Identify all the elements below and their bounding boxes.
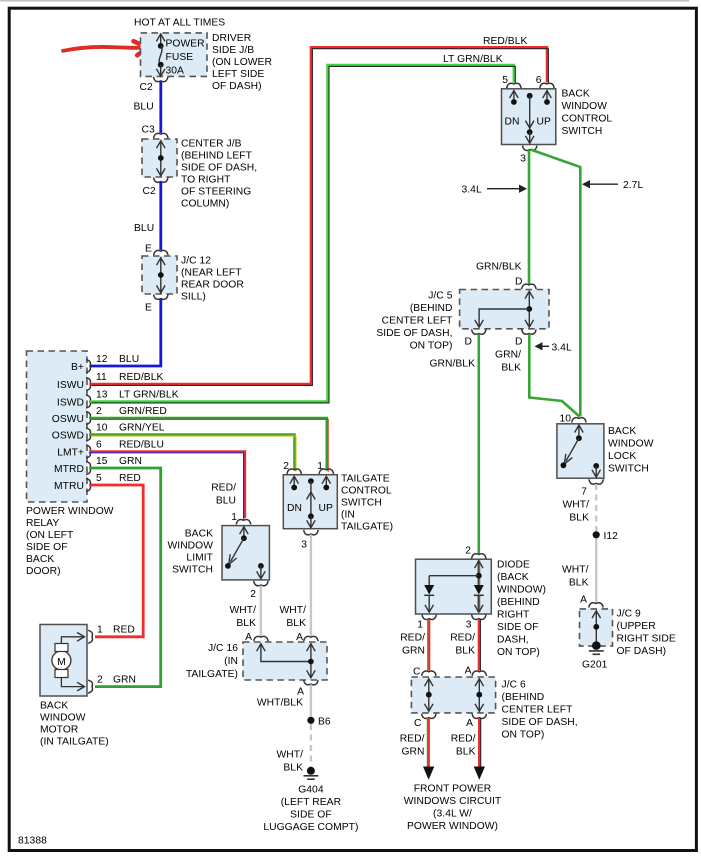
svg-text:SWITCH: SWITCH <box>341 498 382 509</box>
wire WHT/BLK I12 to J/C 9 <box>595 539 597 603</box>
svg-text:C2: C2 <box>140 82 153 93</box>
J/C 5 pin D top <box>515 277 536 290</box>
svg-text:3: 3 <box>301 540 307 551</box>
svg-text:CENTER LEFT: CENTER LEFT <box>502 705 574 716</box>
svg-text:RED: RED <box>119 473 141 484</box>
svg-text:6: 6 <box>96 440 102 451</box>
svg-text:BACK: BACK <box>562 89 590 100</box>
svg-text:CONTROL: CONTROL <box>341 486 392 497</box>
svg-text:J/C 12: J/C 12 <box>181 256 211 267</box>
svg-text:WHT/BLK: WHT/BLK <box>257 698 303 709</box>
svg-text:3: 3 <box>466 620 472 631</box>
svg-text:OSWU: OSWU <box>52 414 84 425</box>
label RED/ GRN lower <box>400 734 425 758</box>
J/C 9 box <box>580 609 676 658</box>
J/C 6 internal wires <box>425 679 484 712</box>
svg-text:RELAY: RELAY <box>26 518 59 529</box>
lock switch pin 10 <box>559 414 586 425</box>
relay pin B+ 12 <box>71 354 139 373</box>
svg-text:2: 2 <box>283 461 289 472</box>
svg-text:LEFT SIDE: LEFT SIDE <box>212 69 264 80</box>
svg-text:RED/BLK: RED/BLK <box>483 36 527 47</box>
svg-text:RED/: RED/ <box>451 734 476 745</box>
svg-text:CENTER LEFT: CENTER LEFT <box>382 316 454 327</box>
svg-text:WINDOW: WINDOW <box>608 439 654 450</box>
wire GRN/BLK right D to lock switch pin 10 <box>529 334 579 417</box>
J/C 12 internal wire <box>157 258 166 293</box>
label WHT/BLK right <box>279 605 306 629</box>
center J/B box <box>142 139 257 210</box>
svg-text:BACK: BACK <box>185 529 213 540</box>
svg-text:BACK: BACK <box>608 426 636 437</box>
wire WHT/BLK tailgate pin3 to J/C 16 <box>310 535 312 637</box>
svg-text:TAILGATE: TAILGATE <box>341 474 390 485</box>
svg-text:(LEFT REAR: (LEFT REAR <box>281 797 341 808</box>
driver side J/B box <box>141 33 272 92</box>
back window lock switch box <box>557 424 654 478</box>
relay pin ISWU 11 <box>57 372 164 391</box>
svg-text:CENTER J/B: CENTER J/B <box>181 139 242 150</box>
connector E above J/C 12 <box>154 250 168 255</box>
J/C 16 pin A right <box>296 632 318 643</box>
svg-text:OSWD: OSWD <box>52 431 84 442</box>
svg-text:13: 13 <box>96 390 108 401</box>
splice I12 <box>593 531 619 542</box>
svg-text:RED/BLK: RED/BLK <box>119 372 163 383</box>
control switch pin 6 <box>536 75 554 88</box>
svg-text:5: 5 <box>96 473 102 484</box>
svg-text:LT GRN/BLK: LT GRN/BLK <box>119 390 179 401</box>
svg-text:DOOR): DOOR) <box>26 566 61 577</box>
tailgate switch pin 1 <box>317 461 333 474</box>
J/C 6 pin C bottom <box>414 714 436 729</box>
ground G404 <box>263 767 358 833</box>
wire RED/GRN J/C 6 to front circuit <box>427 718 428 768</box>
svg-text:BACK: BACK <box>40 701 68 712</box>
svg-text:GRN: GRN <box>402 646 425 657</box>
svg-text:B6: B6 <box>318 717 331 728</box>
svg-text:D: D <box>515 277 523 288</box>
label RED/ GRN <box>400 633 425 657</box>
wire WHT/BLK limit pin2 to J/C 16 <box>260 586 262 637</box>
svg-text:DN: DN <box>287 503 302 514</box>
svg-text:WINDOW: WINDOW <box>40 713 86 724</box>
svg-text:A: A <box>296 632 303 643</box>
label FRONT POWER WINDOWS CIRCUIT <box>404 784 502 833</box>
back window limit switch box <box>168 526 270 580</box>
svg-text:LMT+: LMT+ <box>57 448 84 459</box>
tailgate switch pin 2 <box>283 461 301 474</box>
svg-text:UP: UP <box>319 503 333 514</box>
label 3.4L with arrow <box>462 185 528 196</box>
wire RED/BLK pin11 to control switch pin 6 <box>90 47 548 385</box>
label 3.4L with arrow at J/C 5 <box>535 342 572 353</box>
wire BLU fuse to C3 <box>159 82 162 134</box>
svg-text:SWITCH: SWITCH <box>562 126 603 137</box>
wire RED/BLK J/C 6 to front circuit <box>479 718 480 768</box>
label GRN/ BLK below right D <box>495 350 521 374</box>
svg-text:RED/: RED/ <box>400 734 425 745</box>
diode pin 3 <box>466 615 486 631</box>
svg-text:6: 6 <box>536 75 542 86</box>
svg-text:(IN: (IN <box>341 510 355 521</box>
wire GRN/BLK pin3 to J/C 5 <box>528 150 531 285</box>
svg-text:RED: RED <box>113 625 135 636</box>
svg-text:WINDOW: WINDOW <box>168 541 214 552</box>
limit switch pin 1 <box>231 512 250 524</box>
svg-text:WHT/: WHT/ <box>276 750 303 761</box>
label 2.7L with arrow <box>582 180 643 191</box>
svg-text:J/C 6: J/C 6 <box>502 680 527 691</box>
svg-text:COLUMN): COLUMN) <box>181 199 229 210</box>
svg-text:OF DASH): OF DASH) <box>212 81 262 92</box>
diode pin 1 <box>417 615 436 631</box>
motor M symbol <box>52 633 85 691</box>
svg-text:WINDOW): WINDOW) <box>497 585 546 596</box>
svg-text:LUGGAGE COMPT): LUGGAGE COMPT) <box>263 822 358 833</box>
J/C 16 pin A bottom <box>297 680 318 698</box>
svg-text:(3.4L W/: (3.4L W/ <box>433 809 472 820</box>
diode internal wires <box>424 561 484 613</box>
svg-text:BLK: BLK <box>501 363 521 374</box>
svg-text:SIDE OF: SIDE OF <box>497 622 539 633</box>
back window motor box <box>40 625 109 748</box>
svg-text:BLU: BLU <box>119 354 139 365</box>
svg-text:3.4L: 3.4L <box>552 343 572 354</box>
connector C3 <box>154 133 168 138</box>
svg-text:RIGHT SIDE: RIGHT SIDE <box>617 634 676 645</box>
svg-text:G404: G404 <box>298 785 324 796</box>
svg-text:GRN/BLK: GRN/BLK <box>476 262 522 273</box>
svg-text:WHT/: WHT/ <box>562 500 589 511</box>
relay pin OSWD 10 <box>52 423 165 442</box>
wire RED/BLK diode pin3 to J/C 6 <box>479 619 480 671</box>
wire RED/GRN diode pin1 to J/C 6 <box>428 619 429 671</box>
svg-text:2: 2 <box>96 406 102 417</box>
svg-text:1: 1 <box>97 625 103 636</box>
annotation red arrow <box>63 41 148 55</box>
svg-text:WHT/: WHT/ <box>562 565 589 576</box>
svg-text:10: 10 <box>559 414 571 425</box>
tailgate control switch box <box>283 474 393 533</box>
svg-text:BLU: BLU <box>134 223 154 234</box>
svg-text:HOT AT ALL TIMES: HOT AT ALL TIMES <box>134 18 225 29</box>
relay pin OSWU 2 <box>52 406 167 425</box>
svg-text:(IN: (IN <box>224 656 238 667</box>
svg-text:BLK: BLK <box>236 618 256 629</box>
svg-text:C: C <box>413 667 421 678</box>
relay pin ISWD 13 <box>57 390 179 409</box>
wire GRN/BLK left D to diode pin 2 <box>477 334 480 555</box>
svg-text:ON TOP): ON TOP) <box>502 730 545 741</box>
lock switch pin 7 <box>581 479 603 497</box>
J/C 6 pin A bottom <box>466 714 486 729</box>
svg-text:12: 12 <box>96 354 108 365</box>
svg-text:POWER WINDOW: POWER WINDOW <box>26 506 114 517</box>
wire WHT/BLK to B6 <box>310 685 312 717</box>
svg-text:GRN: GRN <box>401 747 424 758</box>
svg-text:SIDE OF: SIDE OF <box>26 542 68 553</box>
svg-text:(ON LEFT: (ON LEFT <box>26 530 74 541</box>
tailgate switch contacts <box>287 476 333 528</box>
J/C 5 pin D bottom left <box>465 329 486 347</box>
svg-text:SIDE OF DASH,: SIDE OF DASH, <box>502 717 578 728</box>
svg-text:G201: G201 <box>582 660 608 671</box>
svg-text:1: 1 <box>417 620 423 631</box>
svg-text:SIDE OF DASH,: SIDE OF DASH, <box>376 328 452 339</box>
svg-text:BLK: BLK <box>286 618 306 629</box>
svg-text:J/C 5: J/C 5 <box>428 291 453 302</box>
svg-text:I12: I12 <box>604 531 619 542</box>
svg-text:UP: UP <box>537 117 551 128</box>
arrow to front circuit right <box>474 767 485 780</box>
svg-text:E: E <box>145 303 152 314</box>
wire BLU J/C 12 to relay pin 12 <box>90 299 161 366</box>
wire LT GRN/BLK pin13 to control switch pin 5 <box>90 65 515 403</box>
svg-text:OF STEERING: OF STEERING <box>181 187 251 198</box>
label RED/ BLK lower <box>451 734 476 758</box>
arrow to front circuit left <box>423 767 434 780</box>
control switch pin 5 <box>502 75 521 88</box>
svg-text:MOTOR: MOTOR <box>40 725 78 736</box>
svg-text:7: 7 <box>581 487 587 498</box>
svg-text:A: A <box>245 632 252 643</box>
svg-text:CONTROL: CONTROL <box>562 114 613 125</box>
svg-text:TAILGATE): TAILGATE) <box>341 522 393 533</box>
svg-text:WINDOW: WINDOW <box>562 101 608 112</box>
connector C2 below center J/B <box>154 178 168 183</box>
wire GRN pin3 to lock switch 2.7L branch <box>531 150 581 417</box>
diode box <box>416 559 546 658</box>
svg-text:2: 2 <box>97 675 103 686</box>
wire GRN/RED pin2 to tailgate switch pin 1 <box>90 418 328 472</box>
svg-text:RIGHT: RIGHT <box>497 610 530 621</box>
svg-text:BLK: BLK <box>456 747 476 758</box>
svg-text:(BEHIND: (BEHIND <box>497 597 540 608</box>
svg-text:(IN TAILGATE): (IN TAILGATE) <box>40 737 109 748</box>
svg-text:11: 11 <box>96 372 107 383</box>
svg-text:BLU: BLU <box>216 496 236 507</box>
motor pin 1 <box>88 625 135 644</box>
svg-text:BACK: BACK <box>26 554 54 565</box>
J/C 9 internal wire and ground G201 <box>582 611 608 671</box>
svg-text:RED/: RED/ <box>400 633 425 644</box>
page top edge line <box>0 0 689 2</box>
svg-text:C2: C2 <box>143 186 156 197</box>
svg-text:RED/BLU: RED/BLU <box>119 440 164 451</box>
svg-text:D: D <box>515 337 523 348</box>
svg-text:SIDE J/B: SIDE J/B <box>212 45 254 56</box>
svg-text:GRN/BLK: GRN/BLK <box>429 359 475 370</box>
power window relay box <box>26 351 114 577</box>
svg-text:A: A <box>580 595 587 606</box>
J/C 5 internal wires <box>475 291 534 327</box>
lock switch contacts <box>561 425 601 477</box>
svg-text:SWITCH: SWITCH <box>172 565 213 576</box>
svg-text:FUSE: FUSE <box>166 52 194 63</box>
splice B6 <box>307 717 331 728</box>
svg-text:(UPPER: (UPPER <box>617 621 656 632</box>
svg-text:(BEHIND: (BEHIND <box>502 692 545 703</box>
svg-text:GRN: GRN <box>113 675 136 686</box>
control switch pin 3 <box>520 146 537 165</box>
svg-text:SIDE OF DASH,: SIDE OF DASH, <box>181 163 257 174</box>
svg-text:C: C <box>414 718 422 729</box>
J/C 5 pin D bottom right <box>515 329 536 347</box>
svg-text:DIODE: DIODE <box>497 560 530 571</box>
svg-text:(NEAR LEFT: (NEAR LEFT <box>181 268 242 279</box>
svg-text:TAILGATE): TAILGATE) <box>186 669 238 680</box>
J/C 16 box <box>186 642 327 680</box>
svg-text:MTRD: MTRD <box>54 464 84 475</box>
wire BLU C2 to E <box>159 182 162 250</box>
svg-text:(BACK: (BACK <box>497 572 529 583</box>
svg-text:(BEHIND: (BEHIND <box>410 303 453 314</box>
svg-text:E: E <box>145 244 152 255</box>
wire RED/BLU pin6 to limit switch pin 1 <box>89 452 245 520</box>
back window control switch box <box>502 89 613 145</box>
control switch contacts <box>505 90 552 143</box>
svg-text:30A: 30A <box>166 66 185 77</box>
svg-text:OF DASH): OF DASH) <box>617 646 667 657</box>
label RED/ BLK <box>450 633 475 657</box>
svg-text:ISWD: ISWD <box>57 398 84 409</box>
relay pin LMT+ 6 <box>57 440 164 459</box>
svg-text:3.4L: 3.4L <box>462 185 482 196</box>
svg-text:(ON LOWER: (ON LOWER <box>212 57 272 68</box>
svg-text:1: 1 <box>231 512 237 523</box>
wire WHT/BLK dashed B6 to G404 <box>310 724 312 767</box>
svg-text:LIMIT: LIMIT <box>186 553 213 564</box>
label WHT/ BLK <box>276 750 303 774</box>
wire WHT/BLK dashed pin7 to I12 <box>595 484 597 531</box>
svg-text:POWER: POWER <box>166 39 205 50</box>
svg-text:B+: B+ <box>71 362 84 373</box>
diode pin 2 <box>465 546 486 559</box>
limit switch pin 2 <box>250 581 268 600</box>
J/C 6 box <box>411 677 577 741</box>
svg-text:ISWU: ISWU <box>57 380 84 391</box>
J/C 5 box <box>376 290 549 352</box>
svg-text:DN: DN <box>505 117 520 128</box>
svg-text:FRONT POWER: FRONT POWER <box>414 784 492 795</box>
svg-text:LT GRN/BLK: LT GRN/BLK <box>443 54 503 65</box>
label WHT/BLK left <box>229 605 256 629</box>
svg-text:BLK: BLK <box>569 513 589 524</box>
svg-text:A: A <box>465 666 472 677</box>
svg-text:2: 2 <box>250 589 256 600</box>
svg-text:BLK: BLK <box>283 763 303 774</box>
tailgate switch pin 3 <box>301 530 318 551</box>
J/C 16 internal wires <box>257 644 316 678</box>
J/C 12 box <box>142 256 244 303</box>
svg-text:TO RIGHT: TO RIGHT <box>181 175 231 186</box>
svg-text:2.7L: 2.7L <box>623 180 643 191</box>
svg-text:A: A <box>466 718 473 729</box>
wire GRN pin15 to motor pin 2 <box>90 468 161 687</box>
svg-text:M: M <box>57 657 66 668</box>
svg-text:SILL): SILL) <box>181 292 206 303</box>
connector C2 below fuse <box>154 77 168 82</box>
svg-text:81388: 81388 <box>18 836 47 847</box>
svg-text:2: 2 <box>465 546 471 557</box>
svg-text:WINDOWS CIRCUIT: WINDOWS CIRCUIT <box>404 796 502 807</box>
svg-text:BLK: BLK <box>455 646 475 657</box>
svg-text:GRN/: GRN/ <box>495 350 521 361</box>
svg-text:C3: C3 <box>142 125 155 136</box>
fuse POWER FUSE 30A <box>156 34 204 77</box>
J/C 6 pin C top <box>413 667 436 678</box>
svg-text:POWER WINDOW): POWER WINDOW) <box>407 821 498 832</box>
svg-text:RED/: RED/ <box>450 633 475 644</box>
wire GRN/YEL pin10 to tailgate switch pin 2 <box>90 435 296 472</box>
svg-text:REAR DOOR: REAR DOOR <box>181 280 244 291</box>
svg-text:ON TOP): ON TOP) <box>497 647 540 658</box>
J/C 6 pin A top <box>465 666 487 677</box>
svg-text:3: 3 <box>520 154 526 165</box>
center J/B internal wire <box>157 141 166 176</box>
svg-text:MTRU: MTRU <box>54 481 84 492</box>
svg-text:15: 15 <box>96 456 108 467</box>
svg-text:BLK: BLK <box>569 578 589 589</box>
label WHT/ BLK <box>562 500 589 524</box>
svg-text:A: A <box>297 687 304 698</box>
relay pin MTRU 5 <box>54 473 141 492</box>
label WHT/ BLK above J/C 9 <box>562 565 589 589</box>
svg-text:10: 10 <box>96 423 108 434</box>
svg-text:D: D <box>465 337 473 348</box>
svg-text:(BEHIND LEFT: (BEHIND LEFT <box>181 151 253 162</box>
svg-text:DASH,: DASH, <box>497 635 529 646</box>
svg-text:1: 1 <box>317 461 323 472</box>
svg-text:ON TOP): ON TOP) <box>410 341 453 352</box>
svg-text:GRN/RED: GRN/RED <box>119 406 167 417</box>
limit switch contacts <box>225 527 265 579</box>
motor pin 2 <box>88 675 136 694</box>
svg-text:LOCK: LOCK <box>608 451 636 462</box>
svg-text:SWITCH: SWITCH <box>608 464 649 475</box>
svg-text:BLU: BLU <box>134 102 154 113</box>
svg-text:J/C 9: J/C 9 <box>617 609 642 620</box>
relay pin MTRD 15 <box>54 456 142 475</box>
svg-text:SIDE OF: SIDE OF <box>290 810 332 821</box>
svg-text:WHT/: WHT/ <box>229 605 256 616</box>
label RED/BLU <box>211 483 236 507</box>
wire RED pin5 to motor pin 1 <box>90 485 143 637</box>
svg-text:DRIVER: DRIVER <box>212 33 251 44</box>
J/C 9 pin A <box>580 595 603 608</box>
svg-text:RED/: RED/ <box>211 483 236 494</box>
svg-text:J/C 16: J/C 16 <box>208 643 238 654</box>
svg-text:WHT/: WHT/ <box>279 605 306 616</box>
connector E below J/C 12 <box>154 295 168 300</box>
svg-text:GRN/YEL: GRN/YEL <box>119 423 165 434</box>
svg-text:5: 5 <box>502 75 508 86</box>
J/C 16 pin A left <box>245 632 268 643</box>
svg-text:GRN: GRN <box>119 456 142 467</box>
